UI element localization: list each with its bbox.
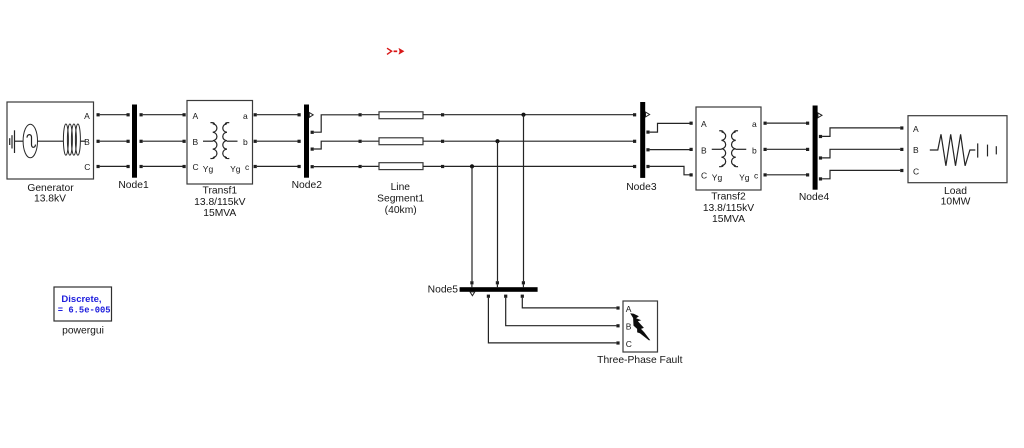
load resistor <box>930 134 976 166</box>
wire (source to coil) <box>38 140 64 142</box>
svg-text:C: C <box>913 166 919 176</box>
svg-text:B: B <box>701 145 707 155</box>
transformer T2 secondary winding <box>732 132 736 166</box>
svg-text:Segment1: Segment1 <box>377 194 424 205</box>
transformer T1 secondary winding <box>223 124 227 158</box>
svg-text:a: a <box>752 119 757 129</box>
svg-text:Yg: Yg <box>739 172 750 182</box>
svg-text:Node2: Node2 <box>292 180 323 191</box>
three-phase fault block <box>616 301 657 352</box>
wire Node2 to LineSegment (C) <box>314 166 359 168</box>
node N3 bus <box>626 102 657 193</box>
wire Transf1 to Node2 (b) <box>257 140 298 142</box>
transformer T2 name label <box>703 191 754 225</box>
generator block G1 <box>7 102 94 179</box>
svg-text:Discrete,: Discrete, <box>61 294 101 305</box>
transformer T1 name label <box>194 185 245 219</box>
svg-text:Yg: Yg <box>203 164 214 174</box>
svg-text:Yg: Yg <box>230 164 241 174</box>
svg-text:A: A <box>913 124 919 134</box>
ground (inside generator) <box>10 130 24 153</box>
wire Node2 to LineSegment (B, jog up) <box>314 141 359 149</box>
wire LineSegment to Node3 (A) <box>444 114 633 116</box>
wire Node2 to LineSegment (A, jog up) <box>314 115 359 132</box>
load name label <box>941 186 971 208</box>
svg-text:13.8/115kV: 13.8/115kV <box>703 203 754 214</box>
svg-text:15MVA: 15MVA <box>203 208 236 219</box>
svg-text:A: A <box>701 119 707 129</box>
transformer T2 leads <box>712 148 722 150</box>
svg-text:B: B <box>913 145 919 155</box>
transformer T1 leads <box>203 140 213 142</box>
svg-text:13.8kV: 13.8kV <box>34 194 66 205</box>
svg-text:Node4: Node4 <box>799 192 830 203</box>
svg-text:a: a <box>243 111 248 121</box>
wire Node4 to Load (A, jog up) <box>822 128 900 136</box>
svg-text:Line: Line <box>391 182 411 193</box>
wire Transf1 to Node2 (c) <box>257 165 298 167</box>
wire Node5 to Fault (B) <box>506 298 617 326</box>
wire LineSegment to Node3 (B) <box>444 140 633 142</box>
node N2 bus <box>292 105 323 192</box>
transformer T1 primary winding <box>213 124 217 158</box>
lightning bolt icon <box>630 313 650 340</box>
generator output ports <box>97 113 100 168</box>
wire Transf2 to Node4 (a) <box>767 122 806 124</box>
wire Transf2 to Node4 (c) <box>767 174 806 176</box>
generator port labels A B C <box>84 111 90 172</box>
svg-text:b: b <box>243 137 248 147</box>
wire drop C to Node5 <box>471 166 473 281</box>
svg-text:C: C <box>193 162 199 172</box>
wire Node5 to Fault (A) <box>522 298 616 308</box>
wire Node3 to Transf2 (C, jog down) <box>650 166 690 174</box>
wire LineSegment to Node3 (C) <box>444 165 633 167</box>
transformer T2 block <box>690 107 767 190</box>
node N1 bus <box>118 105 149 192</box>
junction B <box>495 139 499 143</box>
wire Transf1 to Node2 (a) <box>257 114 298 116</box>
svg-text:B: B <box>626 322 632 332</box>
svg-text:Node5: Node5 <box>428 284 459 295</box>
load block <box>900 116 1007 183</box>
svg-text:Node1: Node1 <box>118 180 149 191</box>
inductor coil (inside generator) <box>63 124 85 155</box>
node N5 bus (horizontal) <box>428 281 538 298</box>
wire drop B to Node5 <box>497 141 499 281</box>
junction A <box>521 113 525 117</box>
svg-text:Node3: Node3 <box>626 182 657 193</box>
wire Node1 to Transf1 (B) <box>143 140 183 142</box>
wire Node3 to Transf2 (B) <box>650 149 690 151</box>
svg-text:A: A <box>193 111 199 121</box>
svg-text:C: C <box>84 162 90 172</box>
load capacitor plates <box>978 143 997 157</box>
node N4 bus <box>799 106 830 204</box>
svg-text:C: C <box>701 171 707 181</box>
svg-text:B: B <box>84 137 90 147</box>
svg-text:Transf1: Transf1 <box>203 185 238 196</box>
line segment L1 <box>359 112 445 216</box>
wire generator A to Node1 <box>100 114 127 116</box>
wire generator C to Node1 <box>100 165 127 167</box>
svg-text:(40km): (40km) <box>385 205 417 216</box>
svg-text:B: B <box>193 137 199 147</box>
svg-text:= 6.5e-005: = 6.5e-005 <box>58 305 111 315</box>
wire Node4 to Load (C, jog up) <box>822 170 900 178</box>
powergui block <box>54 287 112 336</box>
wire Node1 to Transf1 (C) <box>143 165 183 167</box>
wire Node1 to Transf1 (A) <box>143 114 183 116</box>
wire Node5 to Fault (C) <box>488 298 616 343</box>
wire generator B to Node1 <box>100 140 127 142</box>
svg-text:A: A <box>84 111 90 121</box>
svg-text:A: A <box>626 304 632 314</box>
svg-text:powergui: powergui <box>62 325 104 336</box>
transformer T1 block <box>183 101 257 185</box>
generator name label <box>27 183 74 205</box>
svg-text:b: b <box>752 145 757 155</box>
svg-text:C: C <box>626 339 632 349</box>
svg-text:10MW: 10MW <box>941 197 971 208</box>
annotation arrow (red) <box>387 48 404 54</box>
transformer T2 primary winding <box>721 132 725 166</box>
wire Node3 to Transf2 (A, jog up) <box>650 123 690 132</box>
wire drop A to Node5 <box>523 115 525 282</box>
wire Node4 to Load (B, jog up) <box>822 149 900 158</box>
AC source (inside generator) <box>23 124 37 158</box>
svg-text:Load: Load <box>944 186 967 197</box>
svg-text:Transf2: Transf2 <box>711 191 746 202</box>
junction C <box>470 164 474 168</box>
svg-text:Generator: Generator <box>27 183 74 194</box>
svg-text:15MVA: 15MVA <box>712 214 745 225</box>
wire Transf2 to Node4 (b) <box>767 148 806 150</box>
svg-text:Yg: Yg <box>712 172 723 182</box>
svg-text:13.8/115kV: 13.8/115kV <box>194 197 245 208</box>
svg-text:Three-Phase Fault: Three-Phase Fault <box>597 355 682 366</box>
